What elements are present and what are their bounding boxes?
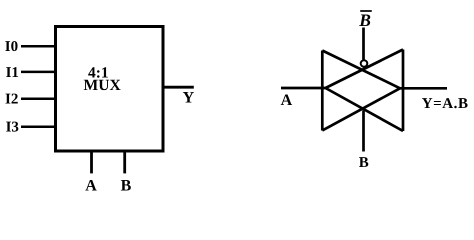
svg-text:I2: I2 (5, 91, 18, 107)
svg-text:Y: Y (183, 90, 195, 107)
svg-text:B: B (359, 155, 369, 171)
svg-text:A: A (85, 178, 97, 195)
svg-text:MUX: MUX (84, 77, 122, 94)
svg-text:B: B (121, 178, 132, 195)
svg-text:I1: I1 (6, 65, 19, 81)
svg-text:B: B (358, 10, 371, 30)
svg-text:I3: I3 (6, 119, 19, 135)
svg-text:A: A (281, 92, 293, 109)
svg-text:Y=A.B: Y=A.B (422, 96, 469, 112)
svg-text:I0: I0 (5, 39, 18, 55)
